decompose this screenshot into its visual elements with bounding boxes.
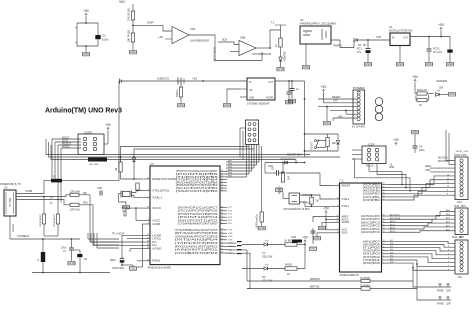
svg-text:18: 18 <box>383 186 385 188</box>
svg-text:M8RXD: M8RXD <box>310 277 320 281</box>
svg-text:(PDO/MISO/PCINT3)PB3: (PDO/MISO/PCINT3)PB3 <box>176 182 219 184</box>
svg-text:IN: IN <box>249 82 252 84</box>
svg-text:RESET: RESET <box>332 95 341 99</box>
svg-text:+5V: +5V <box>83 9 90 13</box>
svg-text:16M: 16M <box>291 236 296 239</box>
svg-text:U3: U3 <box>150 162 154 166</box>
svg-text:(TXD1/INT3)PD3: (TXD1/INT3)PD3 <box>175 243 220 245</box>
svg-text:CMP: CMP <box>147 21 154 25</box>
svg-text:LMV358IDGKR: LMV358IDGKR <box>190 39 209 43</box>
svg-text:+5V: +5V <box>333 100 338 103</box>
svg-text:ON: ON <box>249 90 253 92</box>
svg-text:(ICP)PB0: (ICP)PB0 <box>363 200 381 202</box>
svg-text:+5V: +5V <box>321 85 328 89</box>
svg-text:8: 8 <box>383 256 384 258</box>
svg-text:100n: 100n <box>268 166 274 168</box>
svg-text:(ADC5/SCL)PC5: (ADC5/SCL)PC5 <box>361 215 381 218</box>
svg-text:3: 3 <box>148 223 149 225</box>
svg-text:23: 23 <box>383 231 385 233</box>
svg-text:GND: GND <box>314 236 322 240</box>
svg-text:GND: GND <box>397 62 405 66</box>
svg-text:GND: GND <box>286 100 294 104</box>
svg-text:IOL: IOL <box>458 276 463 279</box>
svg-text:(RT/S/AIN/INT5)PD6: (RT/S/AIN/INT5)PD6 <box>175 232 219 235</box>
svg-text:VIN: VIN <box>119 0 125 4</box>
svg-text:29: 29 <box>147 244 149 246</box>
svg-text:10: 10 <box>383 249 385 251</box>
svg-text:GND: GND <box>130 50 138 54</box>
svg-text:7: 7 <box>383 259 384 261</box>
svg-text:IRQ M: IRQ M <box>88 159 95 162</box>
svg-text:100n: 100n <box>102 38 109 42</box>
svg-text:CG0603MLC: CG0603MLC <box>54 214 56 227</box>
svg-text:ADC5/SCL: ADC5/SCL <box>390 214 401 217</box>
svg-text:13: 13 <box>221 190 223 192</box>
svg-text:GND: GND <box>319 226 327 230</box>
svg-text:GND: GND <box>447 62 455 66</box>
svg-text:24: 24 <box>147 178 149 180</box>
svg-text:(SS/PCINT0)PB0: (SS/PCINT0)PB0 <box>176 191 220 193</box>
svg-text:28: 28 <box>383 215 385 217</box>
svg-text:22R: 22R <box>446 290 451 293</box>
svg-text:ADC4/SDA: ADC4/SDA <box>390 217 401 220</box>
svg-text:(T0/XCK)PD4: (T0/XCK)PD4 <box>363 251 381 253</box>
svg-text:RESET-B/N: RESET-B/N <box>287 153 302 157</box>
svg-text:(AIN1)PD7: (AIN1)PD7 <box>363 240 381 243</box>
svg-text:XTAL1: XTAL1 <box>342 204 350 208</box>
svg-text:13: 13 <box>221 176 223 178</box>
svg-text:25: 25 <box>383 224 385 226</box>
svg-text:26: 26 <box>221 213 223 215</box>
svg-text:1K RN2C: 1K RN2C <box>284 240 295 243</box>
svg-text:6X1F_H8.5: 6X1F_H8.5 <box>454 206 466 208</box>
svg-text:+5V: +5V <box>412 75 419 79</box>
svg-text:GND: GND <box>249 98 254 100</box>
svg-text:500mA: 500mA <box>176 89 179 97</box>
svg-text:GND: GND <box>258 226 266 230</box>
svg-text:PAD: PAD <box>152 259 160 263</box>
svg-text:AVCC: AVCC <box>152 206 161 210</box>
svg-text:PWERSUPPLY_DC21MMX: PWERSUPPLY_DC21MMX <box>300 22 336 26</box>
svg-text:UGND: UGND <box>152 247 161 251</box>
svg-text:12: 12 <box>383 243 385 245</box>
svg-text:9: 9 <box>383 253 384 255</box>
svg-text:+5V: +5V <box>323 207 330 211</box>
svg-text:10: 10 <box>221 242 223 244</box>
svg-text:13: 13 <box>221 170 223 172</box>
svg-text:10K RN3B: 10K RN3B <box>127 30 131 43</box>
svg-text:T1: T1 <box>271 21 275 25</box>
svg-text:26: 26 <box>221 206 223 208</box>
svg-text:4: 4 <box>148 219 149 221</box>
svg-text:47u: 47u <box>357 51 362 54</box>
svg-text:8X1F_H8.5: 8X1F_H8.5 <box>452 237 464 239</box>
svg-text:*2313F_+48.5: *2313F_+48.5 <box>455 151 469 153</box>
svg-text:(MISO)PB4: (MISO)PB4 <box>363 188 381 190</box>
svg-text:31: 31 <box>147 237 149 239</box>
svg-text:1K: 1K <box>287 273 290 276</box>
svg-text:26: 26 <box>221 210 223 212</box>
svg-text:D1: D1 <box>358 43 362 47</box>
svg-text:RN2B: RN2B <box>285 264 292 267</box>
svg-text:(INT1)PD3: (INT1)PD3 <box>363 254 381 256</box>
svg-text:NC/FB: NC/FB <box>266 98 273 100</box>
svg-text:7: 7 <box>338 228 339 230</box>
svg-text:(T0/PCINT4)PB4: (T0/PCINT4)PB4 <box>176 180 220 182</box>
svg-text:10K: 10K <box>332 142 337 145</box>
svg-text:(OC0B/INT0)PD0: (OC0B/INT0)PD0 <box>175 253 220 255</box>
svg-text:ADC2: ADC2 <box>390 223 396 226</box>
svg-text:UGND: UGND <box>11 224 15 232</box>
svg-text:(SCK)PB5: (SCK)PB5 <box>363 184 381 186</box>
svg-text:(CTS/HWB/AIN6/TO/INT7)PD7: (CTS/HWB/AIN6/TO/INT7)PD7 <box>178 223 219 226</box>
svg-text:POWER: POWER <box>353 86 365 90</box>
svg-text:(INT5/AIN3)PD4: (INT5/AIN3)PD4 <box>175 239 220 242</box>
svg-text:(PCINT9/OC1B)PC5: (PCINT9/OC1B)PC5 <box>178 214 219 216</box>
svg-text:U5B: U5B <box>240 36 246 40</box>
svg-text:GND: GND <box>426 62 434 66</box>
svg-text:OUT: OUT <box>403 38 408 40</box>
svg-text:[ADC: [ADC <box>110 259 116 262</box>
svg-text:13: 13 <box>221 173 223 175</box>
svg-text:RESET(PC1/DW): RESET(PC1/DW) <box>152 177 176 181</box>
svg-text:OUT: OUT <box>268 82 273 84</box>
svg-text:22R 2%A: 22R 2%A <box>70 209 80 212</box>
svg-text:17: 17 <box>383 189 385 191</box>
svg-text:2K RN4A: 2K RN4A <box>360 285 370 288</box>
svg-text:RN4E: RN4E <box>437 290 444 293</box>
svg-text:(ADC0)PC0: (ADC0)PC0 <box>361 231 381 234</box>
svg-text:MISO2: MISO2 <box>62 137 70 139</box>
svg-text:30: 30 <box>147 241 149 243</box>
svg-text:AGND: AGND <box>342 220 350 224</box>
svg-text:19: 19 <box>383 183 385 185</box>
svg-text:IRQ_M: IRQ_M <box>366 166 373 168</box>
svg-text:(INT0)PD2: (INT0)PD2 <box>363 257 381 259</box>
svg-text:6: 6 <box>383 262 384 264</box>
svg-text:21: 21 <box>337 215 339 217</box>
svg-text:26: 26 <box>221 222 223 224</box>
svg-text:1K RN4B: 1K RN4B <box>360 278 370 280</box>
svg-text:VIN: VIN <box>376 35 381 39</box>
svg-text:(OC1)PB1: (OC1)PB1 <box>363 197 381 199</box>
svg-text:(ADC1)PC1: (ADC1)PC1 <box>361 228 381 231</box>
svg-text:RN2A 1K: RN2A 1K <box>417 89 428 92</box>
svg-text:GND: GND <box>303 65 311 69</box>
svg-text:2: 2 <box>148 189 149 191</box>
svg-text:(RXD)PD0: (RXD)PD0 <box>363 263 381 265</box>
svg-text:GND: GND <box>449 92 457 96</box>
svg-text:28: 28 <box>147 247 149 249</box>
svg-text:1: 1 <box>338 184 339 186</box>
svg-text:GND: GND <box>276 188 284 192</box>
svg-text:LMV358IDGKR: LMV358IDGKR <box>252 52 271 56</box>
svg-text:ADC3: ADC3 <box>390 220 396 223</box>
svg-text:GND: GND <box>324 121 332 125</box>
svg-text:RESET: RESET <box>311 141 314 150</box>
svg-text:LP2985-33DBVR: LP2985-33DBVR <box>247 102 270 106</box>
svg-text:26: 26 <box>221 219 223 221</box>
svg-text:(OC1A/PCINT8)PC6: (OC1A/PCINT8)PC6 <box>178 210 219 213</box>
svg-text:1K: 1K <box>275 44 278 47</box>
svg-text:RD-: RD- <box>83 192 88 195</box>
svg-text:22R 2%A: 22R 2%A <box>70 190 80 193</box>
svg-text:10K: 10K <box>288 175 291 180</box>
svg-text:1M: 1M <box>316 201 319 203</box>
svg-text:(PCINT10)PC4: (PCINT10)PC4 <box>178 217 220 219</box>
svg-text:T_A: T_A <box>339 179 344 182</box>
svg-text:26: 26 <box>221 216 223 218</box>
svg-text:10: 10 <box>221 248 223 250</box>
svg-text:(AIN2/PCINT11)PC2: (AIN2/PCINT11)PC2 <box>178 219 219 222</box>
svg-text:U5A: U5A <box>190 27 196 31</box>
svg-text:+5V: +5V <box>192 76 197 80</box>
svg-text:GREEN: GREEN <box>436 79 447 83</box>
svg-text:1M: 1M <box>116 168 118 171</box>
svg-text:13: 13 <box>221 184 223 186</box>
svg-text:16: 16 <box>383 193 385 195</box>
svg-text:MOSI2: MOSI2 <box>62 146 70 148</box>
svg-text:VUSB: VUSB <box>25 189 32 193</box>
svg-text:M7: M7 <box>363 43 367 47</box>
svg-text:8: 8 <box>338 231 339 233</box>
svg-text:(PCINT6)PB6: (PCINT6)PB6 <box>176 174 220 176</box>
svg-text:11: 11 <box>383 246 385 248</box>
svg-text:(ADC4/SDA)PC4: (ADC4/SDA)PC4 <box>361 218 381 221</box>
svg-text:(T(T2)/PMMB(A/NA)/TELINT7)PCF: (T(T2)/PMMB(A/NA)/TELINT7)PCF <box>175 229 219 232</box>
svg-text:15: 15 <box>383 196 385 198</box>
svg-text:GND: GND <box>83 52 91 56</box>
svg-text:(T1)PD5: (T1)PD5 <box>363 248 381 250</box>
svg-text:YELLOW: YELLOW <box>284 51 287 62</box>
svg-text:USHIELD: USHIELD <box>17 234 29 238</box>
svg-text:GND: GND <box>224 103 232 107</box>
svg-text:GND: GND <box>342 231 348 235</box>
svg-text:RN1B 10K: RN1B 10K <box>127 8 131 21</box>
svg-text:Arduino(TM) UNO Rev3: Arduino(TM) UNO Rev3 <box>45 106 122 115</box>
svg-text:GND GND: GND GND <box>89 164 99 166</box>
svg-text:(INT4/ICP1/CLK0)PC7: (INT4/ICP1/CLK0)PC7 <box>178 208 219 210</box>
svg-text:22R: 22R <box>446 303 451 306</box>
svg-text:(ADC2)PC2: (ADC2)PC2 <box>361 225 381 228</box>
svg-text:(T1/PCINT5)PB5: (T1/PCINT5)PB5 <box>176 177 220 179</box>
svg-text:RD+: RD+ <box>83 202 89 205</box>
svg-text:27: 27 <box>383 218 385 220</box>
svg-text:8.x 1F-H8.5: 8.x 1F-H8.5 <box>352 126 366 129</box>
svg-text:(TXD)PD1: (TXD)PD1 <box>363 260 381 262</box>
svg-text:CG0603MLC: CG0603MLC <box>40 214 42 227</box>
svg-text:10: 10 <box>221 232 223 234</box>
svg-text:XTAL2: XTAL2 <box>342 197 350 201</box>
svg-text:10: 10 <box>221 235 223 237</box>
svg-text:+5V: +5V <box>438 23 445 27</box>
svg-text:GND: GND <box>389 167 394 169</box>
svg-text:10: 10 <box>221 252 223 254</box>
svg-text:RESET: RESET <box>342 183 351 187</box>
svg-text:+5V: +5V <box>158 35 163 39</box>
svg-text:9: 9 <box>338 205 339 207</box>
svg-text:26: 26 <box>383 221 385 223</box>
svg-text:1: 1 <box>148 196 149 198</box>
svg-text:USBVCC: USBVCC <box>157 76 170 80</box>
svg-text:SCK2: SCK2 <box>62 140 69 142</box>
svg-text:ATMEGA16U2-MU(R): ATMEGA16U2-MU(R) <box>148 267 172 270</box>
svg-text:13: 13 <box>221 178 223 180</box>
svg-text:ADC1: ADC1 <box>390 227 396 230</box>
svg-text:YELLOW: YELLOW <box>262 256 273 259</box>
svg-text:+5V: +5V <box>302 236 309 240</box>
svg-text:(AIN0)PD6: (AIN0)PD6 <box>363 243 381 246</box>
svg-text:AREF: AREF <box>425 165 432 168</box>
svg-text:10: 10 <box>221 229 223 231</box>
svg-text:RN4D: RN4D <box>437 303 444 306</box>
svg-text:+: + <box>75 26 77 30</box>
svg-text:GND: GND <box>310 247 318 251</box>
svg-text:D+: D+ <box>50 197 54 200</box>
svg-text:13: 13 <box>221 187 223 189</box>
svg-text:24: 24 <box>383 228 385 230</box>
svg-text:GND: GND <box>152 222 160 226</box>
svg-text:3CK: 3CK <box>222 37 228 41</box>
svg-text:22: 22 <box>337 221 339 223</box>
svg-text:(SCLK/PCINT1)PB1: (SCLK/PCINT1)PB1 <box>176 188 219 190</box>
svg-text:GND: GND <box>130 266 138 270</box>
svg-text:ADC/SCL: ADC/SCL <box>438 156 449 159</box>
svg-text:ON: ON <box>439 85 443 89</box>
svg-text:XTAL1: XTAL1 <box>152 196 163 200</box>
svg-text:+5V: +5V <box>105 123 112 127</box>
svg-text:M8TXD: M8TXD <box>310 285 319 289</box>
svg-text:IN: IN <box>392 38 395 40</box>
svg-text:(CK0/N/A/MUFPCINT12)PD5: (CK0/N/A/MUFPCINT12)PD5 <box>175 235 219 238</box>
svg-text:+5V: +5V <box>393 138 400 142</box>
svg-text:(SS)PB2: (SS)PB2 <box>363 194 381 196</box>
svg-text:100n: 100n <box>61 248 67 250</box>
svg-text:ATMEGA328P-PU: ATMEGA328P-PU <box>340 274 360 277</box>
svg-text:20: 20 <box>337 218 339 220</box>
svg-text:(PDI/MOSI/PCINT2)PB2: (PDI/MOSI/PCINT2)PB2 <box>176 185 219 187</box>
svg-text:PC2/2: PC2/2 <box>433 49 440 51</box>
svg-text:UGROUND: UGROUND <box>112 268 124 270</box>
svg-text:GATE_CMD: GATE_CMD <box>212 47 216 61</box>
svg-text:CSTCE16M0V53 16 MhG: CSTCE16M0V53 16 MhG <box>283 209 310 211</box>
svg-text:(PCINT7/OC0A/OC1C)PB7: (PCINT7/OC0A/OC1C)PB7 <box>176 170 219 173</box>
svg-text:10: 10 <box>221 239 223 241</box>
svg-text:ADC0: ADC0 <box>390 230 396 233</box>
svg-text:CD1206-S01575: CD1206-S01575 <box>280 159 296 161</box>
svg-text:+: + <box>75 41 77 45</box>
svg-text:10: 10 <box>337 198 339 200</box>
svg-text:(RXD1/AIN1/INT2)PD2: (RXD1/AIN1/INT2)PD2 <box>175 245 219 248</box>
svg-text:32: 32 <box>147 207 149 209</box>
svg-text:27: 27 <box>147 234 149 236</box>
svg-text:+: + <box>305 31 307 35</box>
svg-text:GND: GND <box>425 170 430 172</box>
svg-text:NCP1117ST50T3G: NCP1117ST50T3G <box>389 29 413 33</box>
svg-text:GND: GND <box>365 62 373 66</box>
svg-text:(ADC3)PC3: (ADC3)PC3 <box>361 221 381 224</box>
svg-text:(AIN0/INT1)PD1: (AIN0/INT1)PD1 <box>175 249 220 252</box>
svg-text:RESET2: RESET2 <box>62 143 72 145</box>
svg-text:GND: GND <box>178 103 186 107</box>
svg-text:14: 14 <box>383 199 385 201</box>
svg-text:100n: 100n <box>419 149 425 152</box>
svg-text:GND: GND <box>68 261 76 265</box>
svg-text:VCC: VCC <box>152 218 160 222</box>
svg-text:POWERUSB_B_TH: POWERUSB_B_TH <box>0 184 21 186</box>
svg-text:PWRIN: PWRIN <box>333 44 342 48</box>
svg-text:GND: GND <box>97 188 102 190</box>
svg-text:IOH: IOH <box>457 201 462 204</box>
svg-text:GND: GND <box>277 67 285 71</box>
svg-text:PD USB: PD USB <box>9 197 12 207</box>
svg-text:47u+10n: 47u+10n <box>433 52 443 54</box>
svg-text:10: 10 <box>221 245 223 247</box>
svg-text:XTAL2(PC0): XTAL2(PC0) <box>152 188 169 192</box>
svg-text:GND: GND <box>412 130 420 134</box>
svg-text:10X1F-H8.5: 10X1F-H8.5 <box>454 155 467 157</box>
svg-text:13: 13 <box>221 181 223 183</box>
svg-text:13: 13 <box>383 240 385 242</box>
svg-text:D-: D- <box>50 202 53 205</box>
svg-text:33: 33 <box>147 259 149 261</box>
svg-text:1K: 1K <box>419 104 422 107</box>
svg-text:(MOSI)PB3: (MOSI)PB3 <box>363 191 381 193</box>
